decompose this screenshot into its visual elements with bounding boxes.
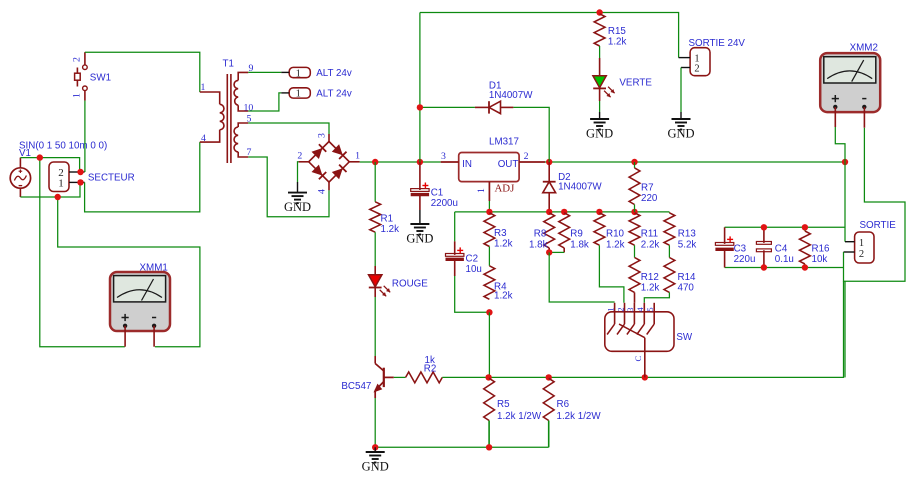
wire R8 junction to SW pin1: [549, 252, 614, 302]
label C4 value: [775, 254, 794, 265]
resistor R2 1k: [406, 372, 443, 383]
svg-text:4: 4: [201, 133, 206, 144]
svg-text:C3: C3: [734, 243, 747, 254]
svg-text:2: 2: [859, 249, 864, 260]
label R16: [812, 243, 831, 254]
multimeter XMM2: [820, 53, 880, 112]
wire SECTEUR pin1 to T1 pin4: [85, 142, 200, 212]
svg-text:R11: R11: [641, 229, 658, 240]
bridge pin number 3: [317, 133, 328, 138]
resistor R9 1.8k: [559, 213, 570, 253]
label LM317: [489, 137, 519, 148]
label SORTIE: [860, 220, 897, 231]
junction R9 top: [561, 209, 567, 215]
XMM1 plus wire: [124, 326, 126, 347]
label R12: [641, 272, 659, 283]
junction R11 top: [631, 209, 637, 215]
svg-text:R12: R12: [641, 272, 659, 283]
svg-text:1: 1: [355, 151, 360, 162]
wire emitter down: [374, 398, 376, 447]
svg-text:GND: GND: [586, 127, 613, 141]
ground below VERTE: [586, 112, 613, 141]
svg-text:LM317: LM317: [489, 137, 519, 148]
svg-text:T1: T1: [223, 59, 234, 70]
capacitor C1 2200u: [411, 162, 429, 210]
SORTIE pin 2 stub: [844, 251, 855, 253]
svg-text:C2: C2: [466, 253, 479, 264]
rotary switch SW: [605, 303, 674, 378]
svg-text:1.2k: 1.2k: [494, 239, 513, 250]
SECTEUR pin number 2: [58, 167, 64, 179]
resistor R15 1.2k: [594, 14, 605, 46]
label R15: [608, 26, 627, 37]
label R3 value: [494, 239, 513, 250]
wire LED ROUGE to transistor: [374, 287, 376, 363]
wire R13 to R14: [668, 245, 670, 257]
label SW1: [90, 73, 111, 84]
label C2: [466, 253, 479, 264]
svg-text:1: 1: [296, 68, 301, 79]
SW pin number 1: [605, 307, 615, 311]
bridge diode bottom-right: [332, 165, 347, 180]
regulator U1 LM317 box: [459, 153, 519, 182]
svg-text:VERTE: VERTE: [619, 78, 652, 89]
junction SECTEUR pin 1: [77, 179, 83, 185]
label R14: [678, 272, 697, 283]
svg-text:R13: R13: [678, 229, 697, 240]
wire R10 to SW pin2: [599, 245, 624, 303]
svg-text:1.8k: 1.8k: [529, 240, 548, 251]
wire main rail right: [545, 161, 845, 163]
label T1: [223, 59, 234, 70]
wire T1 pin7 to bridge pin4: [248, 157, 329, 217]
resistor R1 1.2k: [370, 202, 381, 232]
wire rail to R1: [374, 162, 376, 202]
svg-text:4: 4: [635, 307, 645, 312]
label D1 value 1N4007W: [489, 90, 533, 101]
LED ROUGE: [369, 275, 391, 297]
label ALT 24v first: [316, 68, 352, 79]
wire bottom rail: [489, 281, 844, 377]
svg-text:1: 1: [859, 238, 864, 249]
capacitor C4 0.1u: [756, 227, 771, 267]
svg-text:R16: R16: [812, 243, 831, 254]
svg-text:R1: R1: [381, 213, 394, 224]
wire R14 to SW pin4: [644, 292, 669, 302]
wire top rail to SORTIE 24V: [420, 13, 679, 58]
svg-text:1.2k 1/2W: 1.2k 1/2W: [497, 411, 542, 422]
wire LED VERTE to ground: [599, 88, 601, 112]
junction SECTEUR pin 2: [77, 169, 83, 175]
svg-text:1.2k: 1.2k: [608, 37, 627, 48]
label R4 value: [494, 290, 513, 301]
capacitor C2 10u: [446, 241, 464, 276]
svg-text:R9: R9: [570, 229, 583, 240]
junction V1 bottom: [55, 194, 61, 200]
label R4: [494, 281, 507, 292]
label R15 value: [608, 37, 627, 48]
junction R10 top: [596, 209, 602, 215]
svg-text:ADJ: ADJ: [495, 183, 515, 195]
junction emitter ground: [372, 444, 378, 450]
label R9 value: [570, 240, 589, 251]
svg-text:SORTIE: SORTIE: [860, 220, 897, 231]
label R11 value: [641, 240, 660, 251]
wire V1 top to SECTEUR pin 2: [20, 158, 79, 172]
svg-text:C4: C4: [775, 243, 788, 254]
svg-text:R14: R14: [678, 272, 697, 283]
wire R15 to LED: [599, 46, 601, 76]
wire D1 left branch: [420, 13, 475, 163]
junction R16 bottom: [802, 264, 808, 270]
resistor R13 5.2k: [664, 213, 675, 245]
bridge diode bottom-left: [312, 165, 327, 180]
svg-text:1N4007W: 1N4007W: [558, 182, 602, 193]
label SECTEUR: [88, 173, 135, 184]
junction SW common: [642, 374, 648, 380]
svg-text:10: 10: [244, 102, 254, 113]
label D1: [489, 80, 502, 91]
junction R15 top: [596, 9, 602, 15]
LM317 pin 3 stub: [441, 161, 459, 163]
connector SECTEUR box: [49, 162, 69, 192]
svg-text:1: 1: [605, 307, 615, 311]
label C3 value: [734, 254, 756, 265]
SW1 pin number 2: [72, 57, 83, 62]
svg-text:2: 2: [72, 57, 83, 62]
label R11: [641, 229, 658, 240]
wire emitter rail: [375, 446, 549, 448]
bridge pin number 4: [317, 189, 328, 194]
svg-text:GND: GND: [284, 200, 311, 214]
svg-text:SORTIE 24V: SORTIE 24V: [689, 38, 746, 49]
junction R6 top: [546, 374, 552, 380]
SW1 pin number 1: [72, 93, 83, 98]
junction C4 bottom: [761, 264, 767, 270]
resistor R16 10k: [800, 227, 811, 267]
svg-text:1.2k: 1.2k: [381, 224, 400, 235]
svg-text:7: 7: [247, 147, 252, 158]
junction R7 top: [631, 159, 637, 165]
resistor R5 1.2k 1/2W: [484, 378, 495, 447]
label C1: [431, 188, 444, 199]
SORTIE 24V pin 2 stub: [681, 67, 690, 69]
LM317 ADJ pin: [488, 182, 490, 212]
label R5: [497, 399, 510, 410]
wire V1 bottom to XMM1 minus loop: [58, 197, 200, 347]
LM317 IN text: [462, 159, 472, 170]
svg-text:XMM2: XMM2: [850, 43, 878, 54]
ground at bridge: [284, 182, 311, 214]
wire R12 to SW pin3: [634, 292, 636, 302]
svg-text:XMM1: XMM1: [140, 263, 168, 274]
svg-text:1: 1: [296, 89, 301, 100]
label R1 value: [381, 224, 400, 235]
resistor R14 470: [664, 258, 675, 293]
SW pin number 2: [615, 307, 625, 311]
svg-text:2.2k: 2.2k: [641, 240, 660, 251]
junction C1 top: [417, 159, 423, 165]
label R2: [424, 363, 437, 374]
svg-text:1.2k: 1.2k: [494, 290, 513, 301]
label V1: [19, 148, 31, 159]
label SW: [676, 332, 693, 343]
junction D1 left: [417, 104, 423, 110]
transformer T1 secondary winding top: [234, 72, 248, 111]
junction R5 top: [485, 374, 491, 380]
svg-text:2: 2: [694, 64, 699, 75]
ground below SORTIE 24V: [667, 112, 694, 141]
SORTIE 24V pin number 1: [694, 53, 699, 64]
transformer T1 core: [227, 74, 231, 163]
svg-text:GND: GND: [362, 460, 389, 474]
connector SORTIE box: [855, 232, 874, 263]
resistor R11 2.2k: [629, 213, 640, 245]
svg-text:220: 220: [641, 193, 658, 204]
capacitor C3 220u: [715, 227, 733, 267]
diode D1 1N4007W: [475, 101, 514, 113]
resistor R10 1.2k: [594, 213, 605, 245]
svg-text:1N4007W: 1N4007W: [489, 90, 533, 101]
svg-text:5.2k: 5.2k: [678, 240, 697, 251]
ground below BC547: [362, 447, 389, 473]
svg-text:R5: R5: [497, 399, 510, 410]
svg-text:BC547: BC547: [341, 381, 371, 392]
wire ADJ rail: [455, 211, 670, 213]
T1 pin number 4: [201, 133, 206, 144]
svg-text:5: 5: [645, 307, 655, 312]
label R7 value: [641, 193, 658, 204]
SW pin number 3: [625, 307, 635, 312]
SORTIE pin 1 stub: [845, 241, 855, 243]
svg-text:1.2k 1/2W: 1.2k 1/2W: [557, 411, 602, 422]
wire output group bottom: [725, 267, 844, 269]
svg-text:ROUGE: ROUGE: [392, 278, 428, 289]
svg-text:1: 1: [72, 93, 83, 98]
svg-text:220u: 220u: [734, 254, 756, 265]
svg-text:SW1: SW1: [90, 73, 111, 84]
svg-text:1.2k: 1.2k: [641, 283, 660, 294]
label ALT 24v second: [316, 89, 352, 100]
label R12 value: [641, 283, 660, 294]
svg-text:GND: GND: [667, 127, 694, 141]
svg-text:C: C: [633, 356, 643, 362]
multimeter XMM1: [110, 272, 170, 331]
wire T1 pin10 to ALT connector: [248, 93, 281, 111]
switch SW1: [75, 52, 88, 100]
junction ADJ pin: [486, 209, 492, 215]
svg-text:2: 2: [524, 151, 529, 162]
svg-text:1: 1: [58, 177, 64, 189]
svg-text:SECTEUR: SECTEUR: [88, 173, 135, 184]
wire R8 R9 bottoms: [549, 251, 564, 253]
transistor Q1 BC547: [374, 364, 394, 399]
junction D2 bottom: [546, 209, 552, 215]
T1 pin number 10: [244, 102, 254, 113]
wire SORTIE pin2 net: [844, 128, 906, 282]
LM317 pin number 1: [476, 188, 487, 193]
SW pin number 4: [635, 307, 645, 312]
resistor R4 1.2k: [484, 266, 495, 300]
transformer T1 primary winding: [200, 92, 224, 142]
svg-text:R2: R2: [424, 363, 437, 374]
XMM2 plus wire: [835, 107, 845, 162]
svg-text:R3: R3: [494, 228, 507, 239]
XMM1 minus wire: [153, 326, 155, 347]
wire R3 to R4: [488, 247, 490, 266]
bridge rectifier diamond outline: [299, 134, 360, 190]
svg-text:1: 1: [201, 82, 206, 93]
wire V1 bottom to SECTEUR pin 1: [20, 182, 80, 197]
wire T1 pin5 to bridge pin3: [248, 123, 329, 134]
svg-text:4: 4: [317, 189, 328, 194]
resistor R6 1.2k 1/2W: [543, 378, 554, 447]
wire R4 bottom to base rail: [488, 312, 490, 377]
bridge diode top-left: [312, 144, 327, 159]
junction D2 top: [546, 159, 552, 165]
label C4: [775, 243, 788, 254]
label ROUGE: [392, 278, 428, 289]
svg-text:OUT: OUT: [498, 159, 519, 170]
label R8 value: [529, 240, 548, 251]
SORTIE 24V pin 1 stub: [679, 57, 691, 59]
label R1: [381, 213, 394, 224]
svg-text:R7: R7: [641, 182, 654, 193]
wire output group top: [725, 226, 845, 228]
label R13 value: [678, 240, 697, 251]
LM317 pin 2 stub: [519, 161, 545, 163]
svg-text:GND: GND: [406, 232, 433, 246]
wire R11 to R12: [634, 245, 636, 257]
wire main rail left: [360, 161, 441, 163]
ground below C1: [406, 210, 433, 246]
transformer T1 secondary winding bottom: [234, 123, 248, 157]
bridge pin number 2: [297, 151, 302, 162]
T1 pin number 5: [247, 113, 252, 124]
label R2 value 1k: [425, 355, 435, 366]
junction R16 top: [802, 224, 808, 230]
svg-text:R8: R8: [534, 229, 547, 240]
label R3: [494, 228, 507, 239]
junction R5 bottom: [486, 444, 492, 450]
connector SORTIE 24V box: [690, 48, 710, 76]
label R16 value: [812, 254, 828, 265]
svg-text:3: 3: [441, 151, 446, 162]
SORTIE 24V pin number 2: [694, 64, 699, 75]
diode D2 1N4007W: [543, 162, 556, 212]
wire R1 to LED ROUGE: [374, 232, 376, 275]
label VERTE: [619, 78, 652, 89]
LM317 pin number 2: [524, 151, 529, 162]
SW pin number 5: [645, 307, 655, 312]
resistor R12 1.2k: [629, 258, 640, 293]
wire SORTIE 24V pin2 to ground: [680, 68, 682, 113]
SW pin C label: [633, 356, 643, 362]
svg-text:C1: C1: [431, 188, 444, 199]
bridge pin number 1: [355, 151, 360, 162]
junction V1 top: [37, 154, 43, 160]
resistor R8 1.8k: [544, 213, 555, 253]
svg-text:2: 2: [615, 307, 625, 311]
wire ADJ to C2: [454, 212, 456, 242]
wire ADJ rail to R13: [668, 211, 670, 214]
svg-text:IN: IN: [462, 159, 472, 170]
label XMM1: [140, 263, 168, 274]
ALT 24v connector 2: [281, 88, 310, 100]
wire T1 pin9 to ALT connector: [248, 71, 281, 73]
label SORTIE 24V: [689, 38, 746, 49]
label C1 value: [431, 198, 458, 209]
label R6 value: [557, 411, 602, 422]
svg-text:ALT 24v: ALT 24v: [316, 68, 352, 79]
bridge diode top-right: [332, 144, 347, 159]
svg-text:2200u: 2200u: [431, 198, 458, 209]
junction C4 top: [761, 224, 767, 230]
svg-text:470: 470: [678, 283, 695, 294]
SECTEUR pin 1 stub: [69, 181, 85, 183]
svg-text:R10: R10: [606, 229, 625, 240]
LM317 pin number 3: [441, 151, 446, 162]
svg-text:1.8k: 1.8k: [570, 240, 589, 251]
label XMM2: [850, 43, 878, 54]
label C3: [734, 243, 747, 254]
wire D1 right branch: [513, 107, 549, 162]
XMM2 minus wire: [863, 107, 865, 128]
svg-text:1: 1: [476, 188, 487, 193]
wire SW1 bottom: [84, 101, 86, 172]
svg-text:2: 2: [297, 151, 302, 162]
svg-text:SIN(0 1 50 10m 0 0): SIN(0 1 50 10m 0 0): [19, 140, 107, 151]
label R10: [606, 229, 625, 240]
svg-text:10u: 10u: [466, 264, 482, 275]
wire C2 bottom to R4 bottom: [455, 276, 490, 312]
T1 pin number 9: [249, 63, 254, 74]
junction R1 top: [372, 159, 378, 165]
svg-text:R15: R15: [608, 26, 627, 37]
svg-text:0.1u: 0.1u: [775, 254, 794, 265]
resistor R3 1.2k: [484, 213, 495, 247]
label R5 value: [497, 411, 542, 422]
label R8: [534, 229, 547, 240]
label R10 value: [606, 240, 625, 251]
label C2 value: [466, 264, 482, 275]
label R14 value: [678, 283, 695, 294]
voltage source V1 sine symbol: [10, 158, 30, 197]
junction R4 bottom: [486, 309, 492, 315]
ALT 24v connector 1: [281, 67, 310, 79]
label SIN(0 1 50 10m 0 0): [19, 140, 107, 151]
wire SW1 to T1 pin1: [85, 52, 200, 92]
LED VERTE: [593, 76, 615, 98]
LM317 OUT text: [498, 159, 519, 170]
label R9: [570, 229, 583, 240]
junction R8 bottom: [546, 249, 552, 255]
wire R2 to base rail: [442, 376, 488, 378]
T1 pin number 1: [201, 82, 206, 93]
label R6: [557, 399, 570, 410]
svg-text:10k: 10k: [812, 254, 828, 265]
SORTIE pin number 2: [859, 249, 864, 260]
resistor R7 220: [629, 162, 640, 212]
wire SORTIE pin2 to bottom rail: [844, 281, 846, 377]
svg-text:3: 3: [625, 307, 635, 312]
svg-text:3: 3: [317, 133, 328, 138]
svg-text:ALT 24v: ALT 24v: [316, 89, 352, 100]
svg-text:SW: SW: [676, 332, 693, 343]
svg-text:R6: R6: [557, 399, 570, 410]
T1 pin number 7: [247, 147, 252, 158]
wire bridge pin2 to ground: [298, 162, 299, 182]
